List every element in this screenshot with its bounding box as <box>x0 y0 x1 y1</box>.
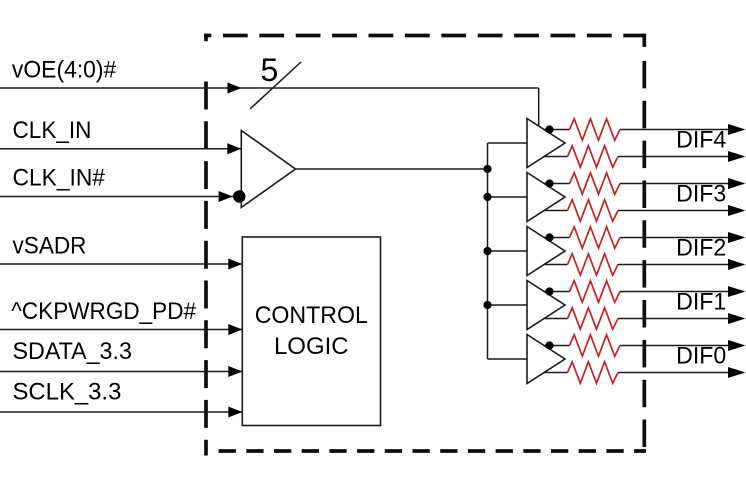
resistor series termination DIF1 complement <box>568 308 619 329</box>
wire DIF2 complement output right segment <box>618 264 729 266</box>
wire DIF1 complement output left segment <box>544 318 567 320</box>
node DIF4 output dot <box>545 125 553 133</box>
arrowhead SDATA_3.3 into control logic <box>228 366 242 377</box>
wire DIF4 complement output left segment <box>544 156 567 158</box>
node junction DIF3 branch <box>483 193 491 201</box>
op-amp output buffer DIF3 <box>527 173 565 222</box>
arrowhead vOE into device <box>228 83 242 94</box>
wire DIF4 true output left segment <box>544 129 569 131</box>
arrowhead DIF4 complement <box>728 151 746 162</box>
arrowhead DIF2 complement <box>728 259 746 270</box>
svg-text:LOGIC: LOGIC <box>274 333 349 360</box>
arrowhead DIF3 true <box>728 178 746 189</box>
arrowhead DIF1 complement <box>728 313 746 324</box>
resistor series termination DIF1 true <box>570 281 621 302</box>
arrowhead DIF2 true <box>728 232 746 243</box>
wire DIF2 true output right segment <box>620 237 729 239</box>
wire DIF4 complement output right segment <box>618 156 729 158</box>
wire DIF0 complement output right segment <box>618 372 729 374</box>
node DIF1 output dot <box>545 287 553 295</box>
resistor series termination DIF3 true <box>570 173 621 194</box>
svg-text:vOE(4:0)#: vOE(4:0)# <box>12 56 116 83</box>
wire DIF2 complement output left segment <box>544 264 567 266</box>
resistor series termination DIF0 complement <box>568 362 619 383</box>
wire DIF1 true output left segment <box>544 291 569 293</box>
op-amp U1 differential clock input buffer <box>241 131 295 208</box>
wire DIF2 true output left segment <box>544 237 569 239</box>
wire DIF1 true output right segment <box>620 291 729 293</box>
wire branch to DIF4 buffer <box>488 142 528 144</box>
wire DIF3 complement output right segment <box>618 210 729 212</box>
arrowhead DIF0 complement <box>728 367 746 378</box>
wire branch to DIF3 buffer <box>488 196 528 198</box>
svg-text:5: 5 <box>261 52 279 88</box>
node main clock junction <box>483 165 491 173</box>
op-amp output buffer DIF0 <box>527 335 565 384</box>
svg-text:CLK_IN: CLK_IN <box>13 116 92 143</box>
wire vOE bus vertical drop to output buffers <box>538 88 540 129</box>
wire vSADR <box>0 263 242 265</box>
wire clock distribution vertical <box>487 143 489 359</box>
arrowhead DIF0 true <box>728 340 746 351</box>
arrowhead vSADR into control logic <box>228 259 242 270</box>
svg-text:^CKPWRGD_PD#: ^CKPWRGD_PD# <box>11 297 196 324</box>
arrowhead ^CKPWRGD_PD# into control logic <box>228 324 242 335</box>
wire ^CKPWRGD_PD# <box>0 329 242 331</box>
op-amp output buffer DIF4 <box>527 119 565 168</box>
wire branch to DIF1 buffer <box>488 304 528 306</box>
node DIF3 output dot <box>545 179 553 187</box>
wire DIF0 true output right segment <box>620 345 729 347</box>
wire vOE bus horizontal <box>0 87 539 89</box>
bus width slash <box>250 62 301 109</box>
arrowhead DIF4 true <box>728 124 746 135</box>
wire DIF3 true output right segment <box>620 183 729 185</box>
resistor series termination DIF3 complement <box>568 200 619 221</box>
wire DIF1 complement output right segment <box>618 318 729 320</box>
wire CLK_IN <box>0 148 241 150</box>
wire DIF4 true output right segment <box>620 129 729 131</box>
resistor series termination DIF4 true <box>570 119 621 140</box>
svg-text:DIF4: DIF4 <box>676 126 726 152</box>
wire U1 output to distribution node <box>296 168 488 170</box>
wire branch to DIF2 buffer <box>488 250 528 252</box>
op-amp output buffer DIF1 <box>527 281 565 330</box>
arrowhead DIF3 complement <box>728 205 746 216</box>
svg-text:DIF1: DIF1 <box>676 288 726 314</box>
svg-text:vSADR: vSADR <box>13 232 87 259</box>
arrowhead CLK_IN# <box>219 191 233 202</box>
svg-text:CLK_IN#: CLK_IN# <box>13 164 105 191</box>
svg-text:DIF2: DIF2 <box>676 234 726 260</box>
device boundary (dashed chip outline) <box>204 34 646 456</box>
resistor series termination DIF4 complement <box>568 146 619 167</box>
wire DIF0 true output left segment <box>544 345 569 347</box>
wire SCLK_3.3 <box>0 411 242 413</box>
svg-text:SDATA_3.3: SDATA_3.3 <box>13 338 132 364</box>
block U2 CONTROL LOGIC <box>242 237 380 426</box>
node CLK_IN# input dot <box>233 190 245 202</box>
svg-text:CONTROL: CONTROL <box>255 302 368 328</box>
node junction DIF1 branch <box>483 301 491 309</box>
arrowhead SCLK_3.3 into control logic <box>228 407 242 418</box>
node DIF2 output dot <box>545 233 553 241</box>
resistor series termination DIF0 true <box>570 335 621 356</box>
arrowhead DIF1 true <box>728 286 746 297</box>
wire DIF0 complement output left segment <box>544 372 567 374</box>
wire DIF3 complement output left segment <box>544 210 567 212</box>
wire SDATA_3.3 <box>0 371 242 373</box>
wire DIF3 true output left segment <box>544 183 569 185</box>
arrowhead CLK_IN <box>227 143 241 154</box>
svg-text:DIF0: DIF0 <box>676 342 726 368</box>
svg-text:SCLK_3.3: SCLK_3.3 <box>13 378 122 405</box>
wire branch to DIF0 buffer <box>488 358 528 360</box>
op-amp output buffer DIF2 <box>527 227 565 276</box>
node junction DIF2 branch <box>483 247 491 255</box>
svg-text:DIF3: DIF3 <box>676 180 726 206</box>
resistor series termination DIF2 true <box>570 227 621 248</box>
node DIF0 output dot <box>545 341 553 349</box>
wire CLK_IN# <box>0 196 241 198</box>
resistor series termination DIF2 complement <box>568 254 619 275</box>
